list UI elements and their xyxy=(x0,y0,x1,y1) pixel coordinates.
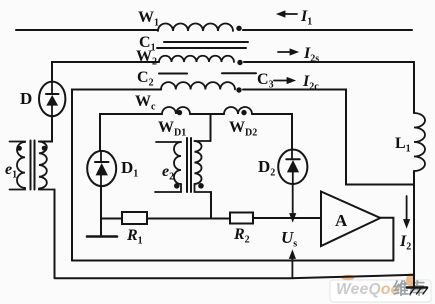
inductor L1 right branch xyxy=(413,62,415,113)
winding row3 xyxy=(161,82,235,89)
wire row2 left + corner to D xyxy=(52,62,159,82)
e2 left winding xyxy=(174,142,181,184)
winding Wc left pair xyxy=(162,107,190,114)
wire D1 down to ground xyxy=(100,186,102,235)
svg-text:C2: C2 xyxy=(137,69,154,89)
e1 dot right xyxy=(42,146,47,151)
e1 left winding xyxy=(17,142,25,188)
watermark orange blob at corner xyxy=(406,274,415,287)
ground (right, hatched) xyxy=(407,275,428,294)
svg-text:D1: D1 xyxy=(121,158,138,180)
winding Wc right pair xyxy=(224,107,252,114)
svg-text:R1: R1 xyxy=(126,227,143,247)
svg-text:WD2: WD2 xyxy=(229,119,257,139)
svg-text:L1: L1 xyxy=(395,135,411,155)
core C3 xyxy=(222,72,256,74)
svg-text:W1: W1 xyxy=(138,9,159,29)
dot Wc left xyxy=(177,110,182,115)
diode D xyxy=(39,82,65,117)
wire bottom rail A xyxy=(72,260,393,262)
op-amp A xyxy=(321,192,380,247)
wire L1 down xyxy=(413,171,415,276)
arrow I2s xyxy=(278,49,298,55)
svg-text:WeeQoo: WeeQoo xyxy=(336,281,400,298)
dot W2 xyxy=(237,60,242,65)
svg-text:C3: C3 xyxy=(257,71,274,91)
wire bottom rail B xyxy=(55,275,415,279)
transformer e2 xyxy=(155,138,211,192)
winding L1 xyxy=(414,113,425,171)
e1 right winding xyxy=(39,142,47,189)
e1 left bottom stub xyxy=(10,188,26,190)
dot Wc right xyxy=(241,110,246,115)
resistor R2 xyxy=(230,213,253,224)
wire row4 mid xyxy=(190,113,224,115)
watermark orange blob on wire xyxy=(342,275,355,281)
wire node to R1 xyxy=(101,218,122,220)
winding W1 xyxy=(158,24,233,31)
watermark box xyxy=(330,279,431,302)
arrow I2 xyxy=(404,196,410,228)
wire row1 right xyxy=(243,29,412,31)
wire row2 right xyxy=(244,61,414,63)
wire row4 right + corner to D2 xyxy=(252,114,292,150)
e2 right winding xyxy=(195,141,202,184)
e1 core xyxy=(31,141,35,190)
svg-text:R2: R2 xyxy=(233,226,250,246)
winding W2 xyxy=(159,56,234,62)
svg-text:I2: I2 xyxy=(399,233,411,253)
svg-text:e2: e2 xyxy=(162,163,174,183)
e2 core xyxy=(187,138,191,192)
arrow Us top (from D2 down) xyxy=(290,184,296,222)
svg-text:I1: I1 xyxy=(300,8,312,28)
svg-text:A: A xyxy=(335,211,348,230)
wire e2 top branch xyxy=(210,114,212,141)
svg-text:D: D xyxy=(20,89,32,108)
wire row3 left + corner down xyxy=(72,90,161,261)
wire D to e1 xyxy=(39,116,52,142)
wire R2 to amplifier xyxy=(253,217,321,219)
svg-text:Wc: Wc xyxy=(135,93,156,113)
e1 left top stub xyxy=(10,141,26,144)
svg-text:e1: e1 xyxy=(5,161,17,181)
wire amp output xyxy=(380,218,393,261)
svg-text:Us: Us xyxy=(281,228,297,250)
wire row3 right to L1 branch xyxy=(243,90,414,185)
dot row3 xyxy=(236,87,241,92)
resistor R1 xyxy=(122,212,147,224)
svg-text:D2: D2 xyxy=(258,157,275,179)
e2 left bottom stub xyxy=(155,184,181,192)
e2 dot left xyxy=(174,183,180,189)
e1 dot left xyxy=(17,146,22,151)
e2 right bottom stub xyxy=(195,184,212,192)
ground (R1 node) xyxy=(87,235,117,238)
wire row4 + corners xyxy=(100,114,162,151)
wire R1 to R2 xyxy=(147,218,230,220)
svg-text:WD1: WD1 xyxy=(158,119,186,139)
core C1 xyxy=(157,42,248,48)
svg-text:I2s: I2s xyxy=(303,45,319,65)
wire row1 left xyxy=(16,29,158,31)
svg-text:I2c: I2c xyxy=(302,73,319,93)
e2 left top stub xyxy=(156,141,181,143)
wire e2 to R wire xyxy=(210,192,212,219)
e2 right top stub xyxy=(195,140,211,142)
arrow Us bottom (up from rail) xyxy=(289,251,295,279)
diode D2 xyxy=(278,150,307,185)
e2 dot right xyxy=(198,183,204,189)
diode D1 xyxy=(87,151,116,186)
e1 right bottom stub xyxy=(39,189,55,190)
wire e1 to bottom rail xyxy=(54,190,56,278)
core C2 xyxy=(159,73,187,75)
transformer e1 xyxy=(10,141,55,190)
arrow I2c xyxy=(274,78,295,84)
dot W1 xyxy=(236,26,241,31)
arrow I1 xyxy=(277,11,297,17)
